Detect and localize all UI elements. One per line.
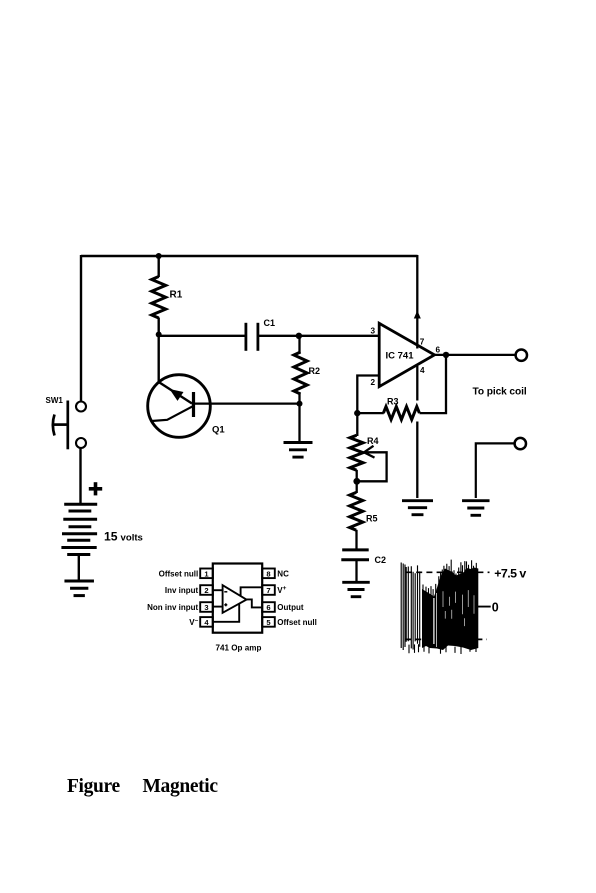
wire: pin 4 down (break at R3 crossing) (416, 366, 418, 401)
ground: return terminal (462, 499, 490, 502)
dashed level line bottom (405, 638, 487, 640)
wire: SW1 to battery (79, 448, 81, 506)
pin 7 box (262, 585, 275, 595)
node: output junction (443, 352, 449, 358)
svg-text:R3: R3 (387, 397, 399, 407)
wire: return terminal to ground (476, 443, 514, 498)
capacitor C1 (159, 318, 300, 351)
node: R1 bottom / C1 junction (156, 332, 162, 338)
svg-text:7: 7 (266, 586, 270, 595)
op-amp symbol inside DIP (223, 585, 247, 613)
wire: to op-amp pin 3 (299, 335, 379, 337)
terminal: pickup coil return post (515, 438, 526, 449)
ground: battery (64, 580, 94, 583)
wiper arrow of R4 (358, 446, 387, 482)
pin 5 box (262, 617, 275, 627)
svg-text:15: 15 (104, 530, 118, 544)
svg-text:1: 1 (204, 569, 209, 578)
svg-text:2: 2 (204, 586, 208, 595)
ground: pin 4 (402, 499, 433, 502)
IC package: 741 DIP-8 body (213, 564, 262, 633)
terminal: output post (516, 350, 527, 361)
wire: junction down to Q1 emitter (157, 335, 159, 384)
wire: pin 2 to R3 node (357, 376, 379, 414)
dashed level line +7.5v (406, 571, 490, 573)
svg-text:R5: R5 (366, 514, 378, 524)
pin 8 box (262, 569, 275, 579)
node: R3 / pin2 / R4 junction (354, 410, 360, 416)
zero level line (475, 606, 491, 608)
wire: pin 7 supply from top rail (416, 255, 418, 349)
svg-text:+7.5 v: +7.5 v (494, 567, 526, 581)
svg-text:Non inv input: Non inv input (147, 603, 198, 612)
resistor R3 (383, 407, 419, 420)
wire: pin7 to op-amp V+ (241, 587, 263, 596)
wire: op-amp output to pin6 (246, 599, 262, 607)
node: R4 wiper junction (353, 478, 360, 485)
svg-text:Figure: Figure (67, 776, 120, 797)
ground: under C2 (342, 581, 370, 584)
svg-text:4: 4 (420, 366, 425, 375)
svg-text:C2: C2 (375, 555, 387, 565)
transistor Q1 (148, 375, 226, 438)
resistor R5 (356, 482, 358, 494)
ground: under R2 (284, 441, 313, 444)
svg-text:R4: R4 (367, 436, 379, 446)
svg-text:NC: NC (277, 569, 289, 578)
svg-text:4: 4 (204, 618, 209, 627)
pin 3 box (200, 602, 213, 612)
node: Q1 base junction (297, 401, 303, 407)
svg-text:5: 5 (266, 618, 271, 627)
svg-text:3: 3 (371, 327, 376, 336)
capacitor C2 (341, 550, 386, 582)
wire: feedback from output node down to R3 (420, 355, 447, 413)
svg-text:8: 8 (266, 569, 270, 578)
solid body of waveform (422, 568, 478, 651)
svg-text:R2: R2 (309, 366, 321, 376)
svg-text:To pick coil: To pick coil (473, 386, 527, 397)
svg-text:3: 3 (204, 603, 208, 612)
wire: Q1 base to R2 node (194, 402, 300, 404)
svg-text:7: 7 (420, 338, 425, 347)
wire: top supply rail (81, 255, 418, 257)
resistor R2 (298, 336, 300, 353)
wire: output pin 6 to terminal (435, 354, 516, 356)
svg-text:741 Op amp: 741 Op amp (216, 644, 262, 653)
svg-text:R1: R1 (170, 290, 183, 301)
wire: pin3 to non-inverting input (213, 606, 223, 608)
svg-text:6: 6 (266, 603, 270, 612)
pin 4 box (200, 617, 213, 627)
svg-text:IC 741: IC 741 (386, 351, 415, 362)
wire: pin4 to op-amp V- (213, 604, 239, 622)
svg-text:Offset null: Offset null (159, 569, 199, 578)
svg-text:SW1: SW1 (46, 396, 64, 405)
node: C1 / R2 / pin3 junction (296, 333, 302, 339)
node: R1 top junction (156, 253, 162, 259)
potentiometer R4 (356, 413, 358, 436)
svg-text:Magnetic: Magnetic (143, 776, 219, 797)
switch SW1 (46, 396, 87, 449)
svg-text:Q1: Q1 (212, 425, 225, 436)
wire: pin2 to inverting input (213, 589, 223, 591)
svg-text:Offset null: Offset null (277, 618, 317, 627)
svg-text:V+: V+ (277, 585, 286, 595)
pin 2 box (200, 585, 213, 595)
op-amp U1 IC 741 (379, 323, 434, 386)
svg-text:V–: V– (189, 617, 198, 627)
svg-text:volts: volts (121, 533, 143, 544)
wire: left rail down to SW1 (80, 255, 82, 402)
battery B1 15 volts (61, 482, 102, 581)
resistor R1 (157, 256, 159, 277)
pin 1 box (200, 569, 213, 579)
wire: base node to ground (298, 404, 300, 443)
oscillogram: output waveform (401, 560, 526, 654)
svg-text:0: 0 (492, 601, 499, 615)
svg-text:Inv input: Inv input (165, 586, 199, 595)
pin 6 box (262, 602, 275, 612)
svg-text:Output: Output (277, 603, 304, 612)
svg-text:C1: C1 (264, 318, 276, 328)
svg-text:2: 2 (371, 378, 376, 387)
svg-text:6: 6 (436, 346, 441, 355)
